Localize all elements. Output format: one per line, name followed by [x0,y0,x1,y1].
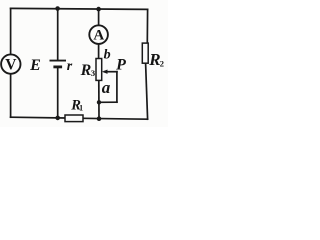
wire wiper return to node [99,101,117,103]
svg-text:3: 3 [91,68,96,78]
resistor R3 (rheostat) [96,59,102,81]
wire wiper vertical [116,72,118,103]
battery E plates [50,61,67,67]
svg-text:A: A [93,28,104,44]
wire left rail lower [10,74,12,117]
wire R3 bottom to bottom rail [98,80,100,118]
resistor R2 [142,43,148,63]
svg-text:2: 2 [160,59,164,69]
svg-text:R: R [148,50,160,69]
wire right rail lower [146,63,148,119]
node wiper junction [97,100,101,104]
svg-text:E: E [29,57,41,74]
wire ammeter branch top [98,9,100,25]
wiper arrowhead P [102,70,108,74]
resistor R1 [65,115,83,122]
wire left rail upper [10,8,12,54]
svg-text:P: P [115,57,126,74]
node battery top [55,6,60,11]
svg-text:r: r [67,59,73,74]
ammeter A [89,25,108,44]
wire ammeter to R3 [98,44,100,59]
node R3 bottom [97,116,102,121]
voltmeter V [1,54,20,73]
wire battery branch upper [57,9,59,61]
wire battery branch lower [57,68,59,118]
svg-text:b: b [104,47,111,62]
node battery bottom [55,116,60,121]
wire right rail upper [146,9,148,43]
svg-text:1: 1 [79,104,83,113]
wire top rail [11,8,148,9]
svg-text:a: a [102,78,111,97]
wire bottom rail left of R1 [11,116,65,119]
wire wiper horizontal [105,71,117,73]
wire bottom rail right of R1 [83,117,148,120]
svg-text:V: V [5,56,17,73]
node ammeter top [96,7,101,12]
